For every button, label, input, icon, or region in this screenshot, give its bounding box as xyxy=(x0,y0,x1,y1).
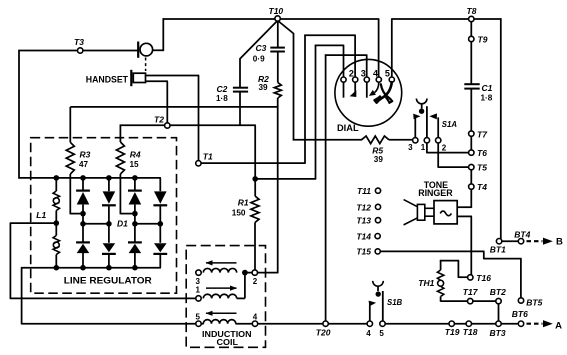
svg-text:HANDSET: HANDSET xyxy=(86,74,129,84)
svg-text:T4: T4 xyxy=(477,182,487,192)
svg-text:R4: R4 xyxy=(130,150,141,160)
svg-text:A: A xyxy=(555,320,562,331)
svg-text:T10: T10 xyxy=(269,6,284,16)
svg-text:2: 2 xyxy=(253,277,258,286)
svg-text:4: 4 xyxy=(366,329,371,338)
svg-text:T18: T18 xyxy=(463,327,478,337)
svg-text:T5: T5 xyxy=(477,163,487,173)
svg-text:L1: L1 xyxy=(36,210,46,220)
svg-text:5: 5 xyxy=(195,312,200,321)
svg-text:R5: R5 xyxy=(372,145,383,155)
svg-text:39: 39 xyxy=(259,83,269,92)
svg-text:T15: T15 xyxy=(356,247,371,257)
svg-text:T16: T16 xyxy=(476,273,491,283)
svg-text:15: 15 xyxy=(130,160,140,169)
svg-text:COIL: COIL xyxy=(217,337,239,347)
svg-text:B: B xyxy=(556,237,563,248)
svg-text:T3: T3 xyxy=(74,37,84,47)
svg-text:S1B: S1B xyxy=(387,298,403,307)
svg-text:4: 4 xyxy=(373,69,378,79)
svg-text:C3: C3 xyxy=(256,43,267,53)
svg-text:C1: C1 xyxy=(482,83,493,93)
svg-text:2: 2 xyxy=(349,69,354,79)
svg-text:T2: T2 xyxy=(154,115,164,125)
svg-text:C2: C2 xyxy=(217,84,228,94)
svg-text:1·8: 1·8 xyxy=(216,94,228,103)
svg-text:DIAL: DIAL xyxy=(337,122,359,133)
svg-text:T19: T19 xyxy=(445,327,460,337)
svg-text:D1: D1 xyxy=(117,219,128,229)
svg-text:T7: T7 xyxy=(477,129,488,139)
svg-text:BT5: BT5 xyxy=(526,297,542,307)
svg-text:BT6: BT6 xyxy=(512,309,528,319)
svg-text:5: 5 xyxy=(385,69,390,79)
svg-text:BT3: BT3 xyxy=(490,328,506,338)
svg-text:1: 1 xyxy=(195,286,200,295)
svg-text:RINGER: RINGER xyxy=(418,188,453,198)
svg-text:1: 1 xyxy=(421,143,426,152)
svg-text:5: 5 xyxy=(379,329,384,338)
svg-text:150: 150 xyxy=(232,209,246,218)
svg-text:T17: T17 xyxy=(463,287,479,297)
svg-text:TH1: TH1 xyxy=(418,278,434,288)
svg-text:T14: T14 xyxy=(356,232,371,242)
svg-text:2: 2 xyxy=(442,143,447,152)
svg-text:3: 3 xyxy=(361,69,366,79)
svg-text:T11: T11 xyxy=(357,186,371,196)
svg-text:T1: T1 xyxy=(203,151,213,161)
svg-text:39: 39 xyxy=(374,155,384,164)
svg-text:47: 47 xyxy=(79,160,89,169)
svg-text:BT1: BT1 xyxy=(490,244,506,254)
svg-text:T12: T12 xyxy=(356,202,371,212)
svg-text:BT2: BT2 xyxy=(490,287,506,297)
svg-text:4: 4 xyxy=(253,312,258,321)
svg-text:T6: T6 xyxy=(477,148,487,158)
svg-text:3: 3 xyxy=(195,277,200,286)
svg-text:LINE REGULATOR: LINE REGULATOR xyxy=(64,276,153,286)
svg-text:S1A: S1A xyxy=(442,120,458,129)
svg-text:R3: R3 xyxy=(80,150,91,160)
svg-text:T9: T9 xyxy=(478,35,488,45)
svg-text:R1: R1 xyxy=(238,197,249,207)
svg-text:T13: T13 xyxy=(356,216,371,226)
svg-text:0·9: 0·9 xyxy=(253,54,265,63)
svg-text:3: 3 xyxy=(408,143,413,152)
svg-text:T20: T20 xyxy=(316,328,331,338)
svg-text:1·8: 1·8 xyxy=(481,94,493,103)
svg-text:BT4: BT4 xyxy=(514,230,530,240)
svg-text:T8: T8 xyxy=(467,6,477,16)
